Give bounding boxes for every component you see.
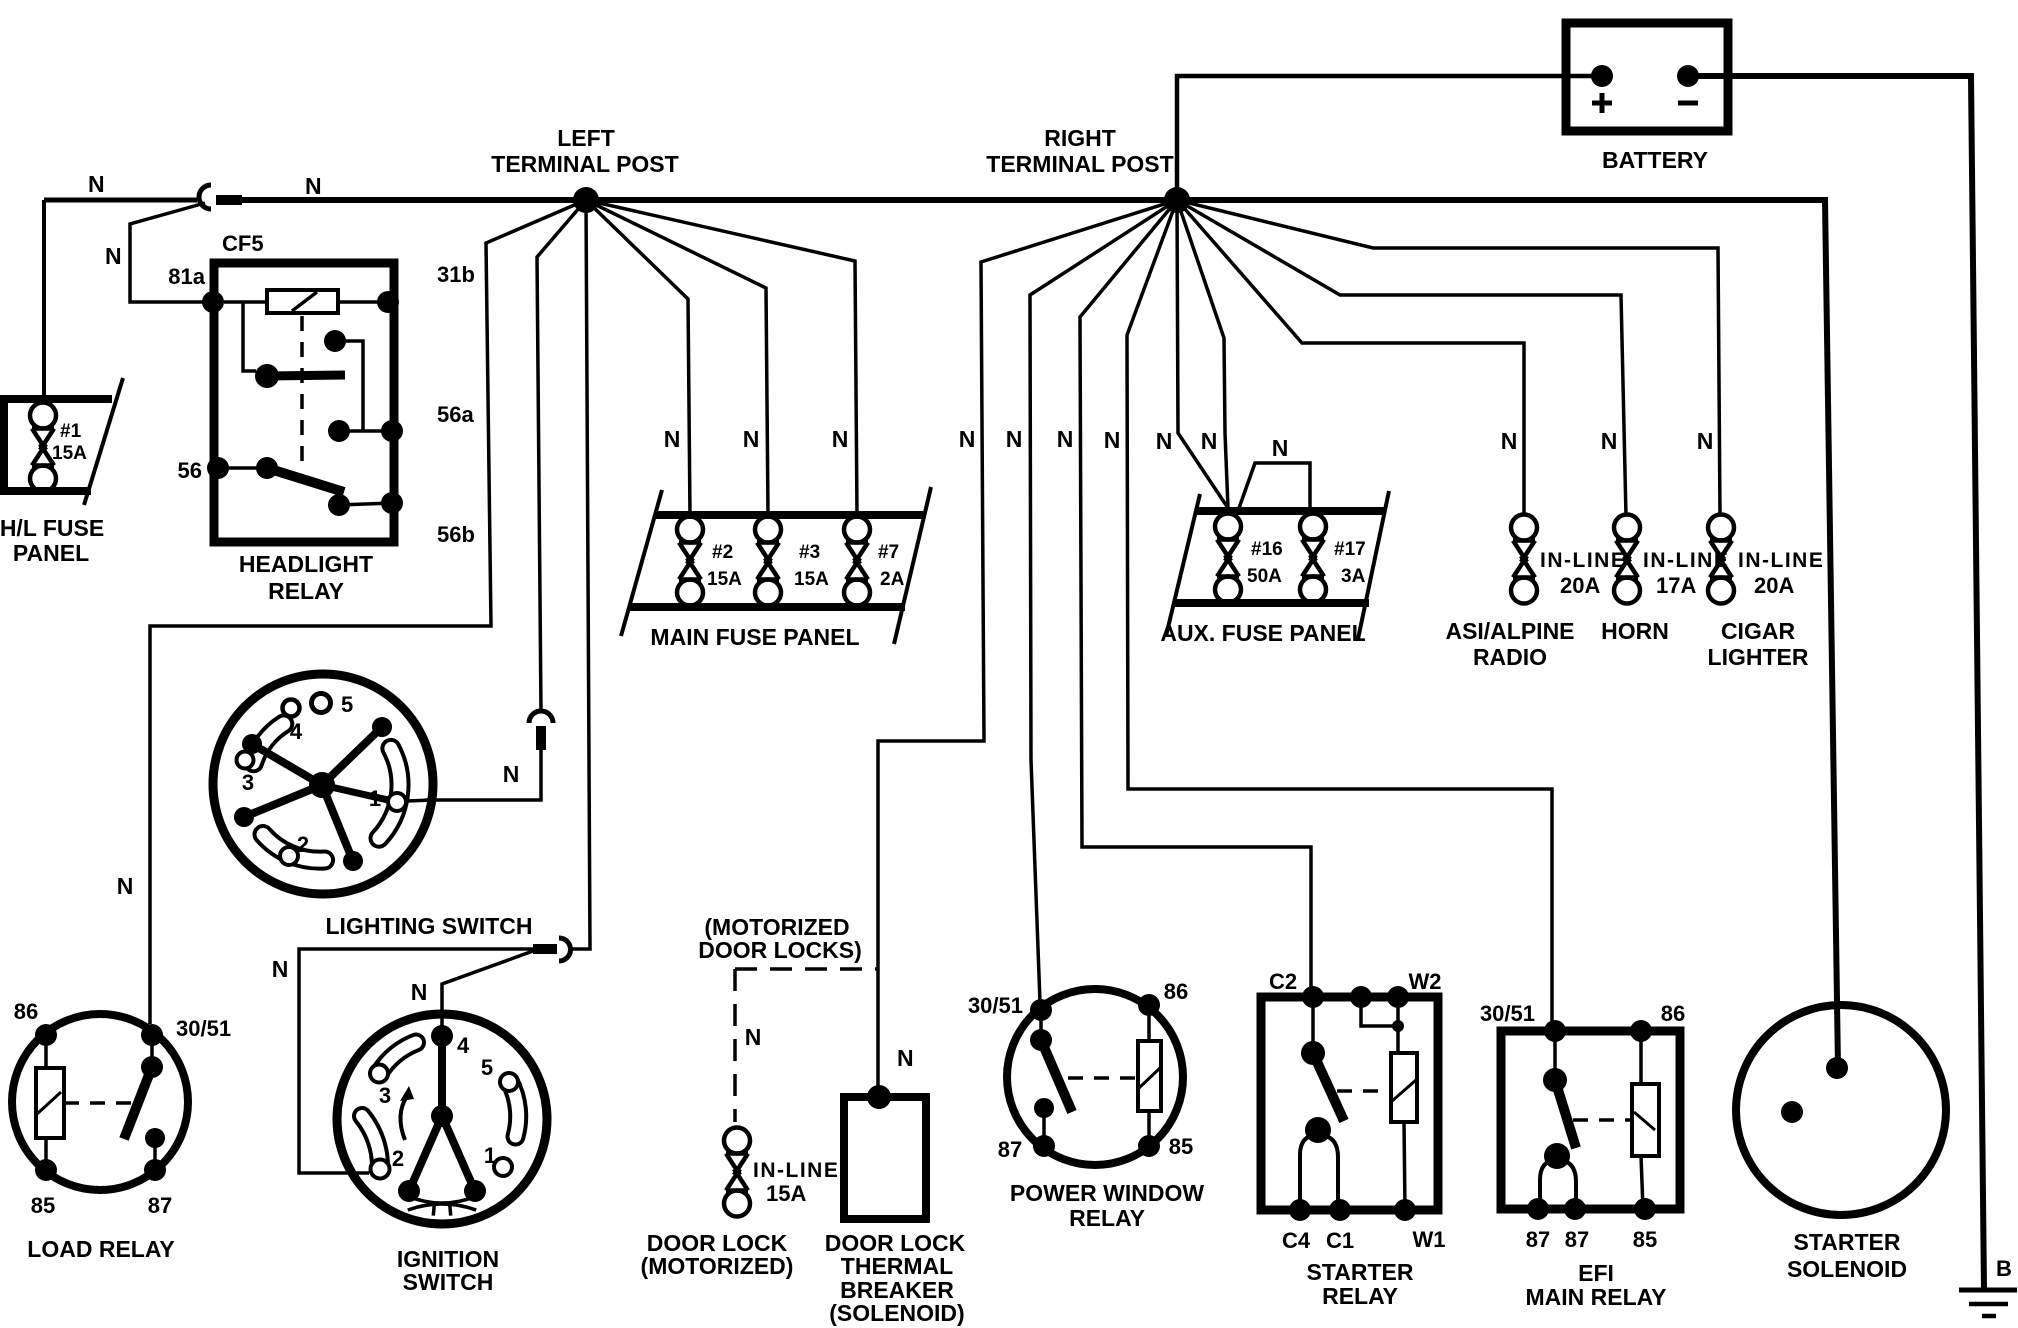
dashed wire motorized door locks branch [735, 969, 878, 1122]
svg-text:#16: #16 [1251, 539, 1283, 560]
svg-text:W1: W1 [1413, 1227, 1446, 1252]
moving contact dome [1305, 1117, 1331, 1143]
svg-text:87: 87 [1526, 1227, 1550, 1252]
wire left post to main fuse 3 [586, 200, 768, 515]
wire right post to door lock thermal breaker [878, 200, 1177, 1090]
svg-text:N: N [503, 761, 520, 787]
svg-text:20A: 20A [1560, 573, 1600, 598]
wire coil to W1 [1404, 1122, 1405, 1210]
svg-text:LEFT: LEFT [557, 125, 615, 151]
terminal 30/51 [1544, 1020, 1566, 1042]
svg-text:85: 85 [1169, 1134, 1193, 1159]
svg-text:3: 3 [242, 770, 254, 795]
wire N feed left segment [44, 198, 197, 203]
dashed actuator link [300, 316, 304, 470]
aux fuse panel [1166, 491, 1389, 639]
door lock thermal breaker CB1 [844, 1085, 926, 1219]
svg-text:PANEL: PANEL [13, 540, 89, 566]
contact slot upper-left [254, 724, 284, 763]
connector lighting switch feed [529, 711, 553, 750]
svg-text:RIGHT: RIGHT [1044, 125, 1116, 151]
svg-text:87: 87 [148, 1193, 172, 1218]
wire left post to main fuse 7 [586, 200, 857, 515]
svg-text:5: 5 [341, 692, 353, 717]
dashed actuator link [1068, 1076, 1138, 1080]
terminal 87 [144, 1159, 166, 1181]
svg-text:N: N [105, 243, 122, 269]
open contact position 3 [237, 752, 254, 769]
svg-text:86: 86 [1164, 979, 1188, 1004]
node RIGHT TERMINAL POST [986, 125, 1190, 213]
relay coil [1391, 1053, 1417, 1122]
svg-text:#1: #1 [60, 421, 82, 442]
fuse #2 15A [677, 517, 742, 606]
main fuse panel [621, 487, 931, 644]
switch blade [1311, 997, 1315, 1053]
starter solenoid M1 [1736, 1005, 1946, 1215]
svg-text:TERMINAL POST: TERMINAL POST [491, 151, 678, 177]
svg-text:MAIN RELAY: MAIN RELAY [1526, 1284, 1667, 1310]
open contact position 2 [371, 1160, 390, 1179]
svg-text:RELAY: RELAY [1322, 1283, 1398, 1309]
svg-text:#7: #7 [878, 542, 899, 563]
fuse #1 15A [30, 403, 87, 492]
wire left post to main fuse 2 [586, 200, 690, 515]
svg-text:RELAY: RELAY [268, 578, 344, 604]
H/L fuse panel [0, 378, 123, 505]
svg-text:EFI: EFI [1578, 1260, 1614, 1286]
wire right post to power window relay 30/51 [1030, 200, 1177, 1002]
svg-text:C2: C2 [1269, 969, 1297, 994]
terminal 4 and rotor [431, 1025, 453, 1047]
contact to 56b [328, 494, 350, 516]
in-line fuse radio 20A [1445, 515, 1626, 671]
svg-text:87: 87 [1565, 1227, 1589, 1252]
svg-text:81a: 81a [168, 264, 205, 289]
svg-text:SWITCH: SWITCH [403, 1269, 494, 1295]
svg-text:ASI/ALPINE: ASI/ALPINE [1445, 618, 1574, 644]
position marker circles 4 and 5 [283, 700, 300, 717]
contact slot left [362, 1116, 380, 1168]
svg-text:30/51: 30/51 [1480, 1001, 1535, 1026]
wire coil branch to armature [243, 302, 256, 371]
terminal 56b [381, 492, 403, 514]
headlight relay K1 [168, 262, 475, 547]
terminal W1 [1394, 1199, 1416, 1221]
switch blade [1553, 1031, 1557, 1080]
terminal 30/51 [141, 1024, 163, 1046]
bottom contact arc band [408, 1196, 476, 1210]
svg-text:87: 87 [998, 1137, 1022, 1162]
terminal 85 [35, 1159, 57, 1181]
switch blade [256, 457, 278, 479]
terminal 87 right [1564, 1198, 1586, 1220]
svg-text:CIGAR: CIGAR [1721, 618, 1796, 644]
wire left post center down to ignition connector [571, 200, 590, 949]
svg-text:SOLENOID: SOLENOID [1787, 1256, 1907, 1282]
svg-text:THERMAL: THERMAL [841, 1253, 953, 1279]
svg-text:N: N [1201, 428, 1218, 454]
connector ignition switch feed [533, 938, 571, 961]
switch blade [1039, 1010, 1043, 1040]
contact to 87 [1034, 1098, 1054, 1118]
svg-text:5: 5 [481, 1055, 493, 1080]
wire right post to cigar lighter in-line fuse [1177, 200, 1720, 516]
moving contact dome [1544, 1143, 1570, 1169]
wire right post to aux fuse 16 second feed [1177, 200, 1228, 508]
svg-text:C4: C4 [1282, 1228, 1311, 1253]
svg-text:N: N [959, 426, 976, 452]
svg-text:1: 1 [484, 1143, 496, 1168]
open contact position 1 [388, 793, 406, 811]
in-line fuse cigar 20A [1708, 515, 1825, 671]
terminal C1 [1329, 1199, 1351, 1221]
relay coil [36, 1068, 64, 1138]
svg-text:N: N [272, 956, 289, 982]
svg-text:HORN: HORN [1601, 618, 1669, 644]
relay armature bar [255, 364, 279, 388]
svg-text:LIGHTER: LIGHTER [1708, 644, 1809, 670]
contact slot top-left [379, 1043, 416, 1074]
svg-text:86: 86 [1661, 1001, 1685, 1026]
svg-text:(MOTORIZED): (MOTORIZED) [641, 1253, 794, 1279]
svg-text:LIGHTING SWITCH: LIGHTING SWITCH [326, 913, 533, 939]
svg-text:#17: #17 [1334, 539, 1366, 560]
wire right post to horn in-line fuse [1177, 200, 1626, 516]
svg-text:MAIN FUSE PANEL: MAIN FUSE PANEL [650, 624, 859, 650]
load relay K2 [12, 999, 231, 1218]
contact slot bottom [263, 835, 325, 861]
svg-text:50A: 50A [1247, 566, 1282, 587]
svg-text:IN-LINE: IN-LINE [753, 1159, 839, 1182]
wire CF5 to headlight relay 81a [130, 203, 213, 302]
svg-text:STARTER: STARTER [1794, 1229, 1901, 1255]
contact to 87 [145, 1128, 165, 1148]
svg-text:20A: 20A [1754, 573, 1794, 598]
terminal 87 [1033, 1135, 1055, 1157]
open contact position 5 [500, 1073, 518, 1091]
terminal 86 [1138, 994, 1160, 1016]
terminal 30/51 [1030, 999, 1052, 1021]
battery B1 [1566, 23, 1728, 173]
svg-text:1: 1 [369, 786, 381, 811]
wire H/L fuse feed [42, 200, 46, 397]
svg-text:2: 2 [392, 1146, 404, 1171]
wire main bus from CF5 to right bend, down to starter solenoid [240, 200, 1838, 1068]
terminal C2 [1302, 986, 1324, 1008]
fuse #7 2A [844, 517, 905, 606]
svg-text:31b: 31b [437, 262, 475, 287]
in-line fuse door lock 15A [724, 1128, 839, 1217]
terminal C4 [1289, 1199, 1311, 1221]
svg-text:N: N [832, 426, 849, 452]
wire ignition connector diagonal to terminal 4 [442, 951, 533, 1030]
svg-text:N: N [1601, 428, 1618, 454]
svg-text:IN-LINE: IN-LINE [1738, 549, 1824, 572]
svg-text:RADIO: RADIO [1473, 644, 1547, 670]
wire right post up to battery positive [1177, 76, 1596, 200]
svg-text:17A: 17A [1656, 573, 1696, 598]
svg-text:4: 4 [457, 1033, 470, 1058]
svg-text:N: N [305, 173, 322, 199]
svg-text:N: N [743, 426, 760, 452]
svg-text:W2: W2 [1409, 969, 1442, 994]
svg-text:30/51: 30/51 [968, 993, 1023, 1018]
top middle terminal [1350, 986, 1372, 1008]
svg-text:H/L FUSE: H/L FUSE [0, 515, 104, 541]
open contact position 2 [280, 847, 298, 865]
svg-text:56a: 56a [437, 402, 474, 427]
fuse #16 50A [1215, 514, 1283, 603]
terminal 56 [207, 457, 229, 479]
svg-text:LOAD RELAY: LOAD RELAY [27, 1236, 174, 1262]
svg-text:N: N [1006, 426, 1023, 452]
ignition switch S2 [337, 1014, 547, 1224]
wire contact 1 to circle edge [406, 800, 434, 801]
svg-text:N: N [117, 873, 134, 899]
terminal 86 [35, 1024, 57, 1046]
svg-text:56: 56 [178, 458, 202, 483]
open contact position 1 [494, 1158, 512, 1176]
terminal 86 [1630, 1020, 1652, 1042]
svg-text:IN-LINE: IN-LINE [1540, 549, 1626, 572]
wire left post to lighting switch connector [537, 200, 586, 712]
rotor spokes [322, 727, 382, 785]
svg-text:N: N [897, 1045, 914, 1071]
svg-text:BATTERY: BATTERY [1602, 147, 1708, 173]
terminal 81a [202, 291, 224, 313]
fuse #3 15A [755, 517, 829, 606]
svg-text:N: N [1104, 427, 1121, 453]
svg-text:3: 3 [379, 1083, 391, 1108]
contact to 56a [324, 330, 346, 352]
wire right post to radio in-line fuse [1177, 200, 1524, 516]
lighting switch S1 [213, 674, 434, 894]
svg-text:3A: 3A [1341, 566, 1366, 587]
svg-text:AUX. FUSE PANEL: AUX. FUSE PANEL [1160, 620, 1365, 646]
relay coil [1138, 1041, 1161, 1111]
svg-text:CF5: CF5 [222, 231, 264, 256]
svg-text:N: N [1156, 428, 1173, 454]
svg-text:RELAY: RELAY [1069, 1205, 1145, 1231]
wire ignition connector to contact 2 [299, 949, 533, 1173]
svg-text:N: N [411, 979, 428, 1005]
svg-text:30/51: 30/51 [176, 1016, 231, 1041]
svg-text:N: N [1057, 426, 1074, 452]
svg-text:N: N [745, 1024, 762, 1050]
svg-text:15A: 15A [707, 569, 742, 590]
svg-text:N: N [1272, 435, 1289, 461]
connector CF5 [199, 185, 264, 256]
svg-text:POWER WINDOW: POWER WINDOW [1010, 1180, 1204, 1206]
svg-text:4: 4 [290, 719, 303, 744]
svg-text:2: 2 [297, 832, 309, 857]
svg-text:N: N [1697, 428, 1714, 454]
wire connector to lighting switch contact 1 [425, 750, 541, 800]
terminal 85 [1138, 1135, 1160, 1157]
wire right post to EFI main relay 30/51 [1127, 200, 1552, 1026]
svg-text:B: B [1996, 1256, 2012, 1281]
svg-text:15A: 15A [52, 443, 87, 464]
dashed actuator link [64, 1101, 135, 1105]
svg-text:HEADLIGHT: HEADLIGHT [239, 551, 373, 577]
switch blade [150, 1035, 154, 1067]
relay coil [267, 290, 338, 313]
wire left post to load relay 30/51 [150, 200, 586, 1024]
svg-text:56b: 56b [437, 522, 475, 547]
in-line fuse horn 17A [1601, 515, 1729, 645]
wire right post straight down to aux fuse 16 [1177, 200, 1228, 508]
starter relay K4 [1261, 969, 1446, 1253]
terminal 87 left [1527, 1198, 1549, 1220]
terminal 56a [381, 420, 403, 442]
power window relay K3 [968, 979, 1193, 1165]
rotation arrow [400, 1096, 407, 1140]
svg-text:N: N [664, 426, 681, 452]
wire right post to starter relay C2 [1080, 200, 1311, 992]
svg-text:15A: 15A [766, 1181, 806, 1206]
contact slot right [510, 1082, 518, 1137]
svg-text:86: 86 [14, 999, 38, 1024]
ground B [1959, 1256, 2017, 1316]
svg-text:DOOR LOCKS): DOOR LOCKS) [698, 937, 862, 963]
relay coil [1632, 1084, 1659, 1156]
dashed actuator link [1337, 1089, 1391, 1093]
svg-text:N: N [88, 171, 105, 197]
svg-text:N: N [1501, 428, 1518, 454]
svg-text:#3: #3 [799, 542, 820, 563]
svg-text:(SOLENOID): (SOLENOID) [829, 1300, 964, 1326]
wire middle terminal to coil [1361, 997, 1398, 1053]
svg-text:85: 85 [31, 1193, 55, 1218]
svg-text:85: 85 [1633, 1227, 1657, 1252]
svg-text:#2: #2 [712, 542, 733, 563]
svg-text:TERMINAL POST: TERMINAL POST [986, 151, 1173, 177]
dashed actuator link [1573, 1118, 1632, 1122]
EFI main relay K5 [1480, 1001, 1685, 1252]
open contact position 3 [370, 1065, 388, 1083]
node LEFT TERMINAL POST [491, 125, 678, 213]
svg-text:15A: 15A [794, 569, 829, 590]
fuse #17 3A [1300, 514, 1366, 603]
svg-text:C1: C1 [1326, 1228, 1354, 1253]
svg-text:2A: 2A [880, 569, 905, 590]
terminal 85 [1634, 1198, 1656, 1220]
wire 81a to coil to 31b [224, 300, 267, 304]
svg-text:STARTER: STARTER [1307, 1259, 1414, 1285]
terminal W2 [1387, 986, 1409, 1008]
wire aux panel jumper to fuse 17 [1239, 463, 1310, 511]
contact slot right [379, 748, 400, 838]
wire battery negative to ground [1688, 76, 1984, 1290]
terminal 31b [377, 291, 399, 313]
